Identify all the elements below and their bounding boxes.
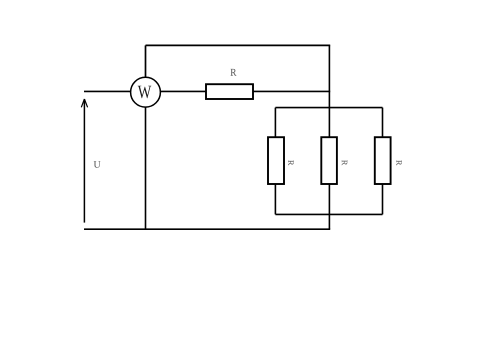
label R4 value (rotated): [396, 160, 401, 165]
label R2 value (rotated): [288, 160, 293, 165]
label U voltage: [94, 161, 101, 168]
resistor R1 (series, horizontal): [206, 84, 253, 99]
resistor R2 (left parallel branch): [268, 137, 284, 184]
wire left drop from top rail to wattmeter: [145, 45, 147, 77]
wire wattmeter to resistor R1: [160, 90, 206, 92]
wattmeter P1 (circle): [131, 77, 161, 107]
wire top rail: [146, 44, 331, 46]
node U voltage arrowhead: [81, 99, 87, 107]
wire left branch lower: [274, 184, 276, 214]
wire right branch upper: [382, 108, 384, 138]
wire parallel-bank bottom bus: [275, 213, 382, 215]
wire parallel-bank top bus: [275, 107, 382, 109]
wire left horizontal into wattmeter: [84, 90, 131, 92]
wire bottom rail: [84, 228, 330, 230]
wire left branch upper: [274, 108, 276, 138]
wire right branch lower: [382, 184, 384, 214]
wire right vertical upper (top rail down to R3 box): [328, 45, 330, 137]
resistor R3 (middle parallel branch): [321, 137, 337, 184]
wire wattmeter bottom drop: [145, 107, 147, 229]
wire resistor R1 to right vertical: [253, 90, 330, 92]
wire right vertical lower (below R3 box to bottom wire): [328, 184, 330, 229]
node U voltage arrow shaft: [83, 99, 85, 222]
resistor R4 (right parallel branch): [375, 137, 391, 184]
label R3 value (rotated): [342, 160, 347, 165]
label R1 value: [230, 69, 236, 76]
label W (wattmeter): [138, 86, 152, 99]
